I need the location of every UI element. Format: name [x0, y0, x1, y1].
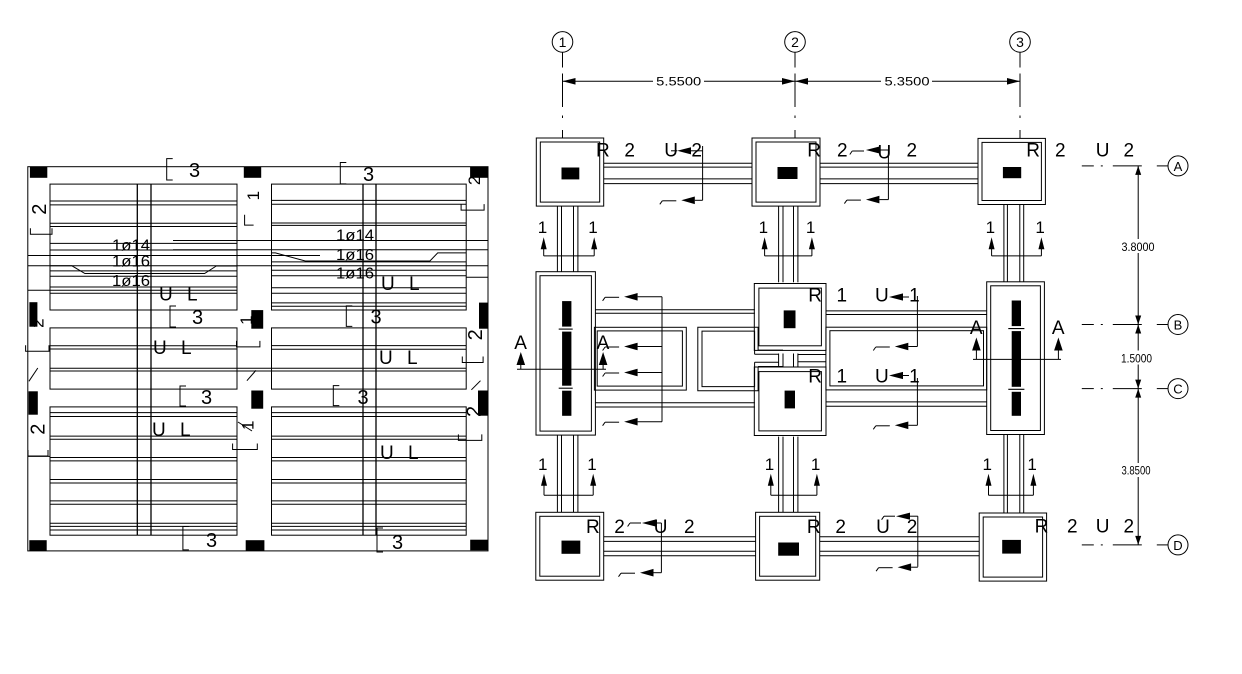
beam C right lines: [826, 401, 987, 403]
column D2: [778, 543, 799, 556]
column square top-middle: [244, 167, 261, 178]
svg-text:1: 1: [1027, 455, 1036, 474]
section mark 3 mid2 left: [180, 386, 186, 406]
dim text 5.3500: [881, 74, 932, 88]
svg-text:2: 2: [791, 34, 799, 50]
svg-text:R: R: [808, 367, 822, 388]
room left 2 notch to beam: [758, 349, 783, 351]
grid line D dash-dot: [1082, 544, 1094, 546]
long rebar line row3 left border: [28, 455, 50, 457]
dim extension ticks: [562, 74, 564, 108]
svg-text:1: 1: [837, 286, 848, 307]
room left 2 outer: [698, 327, 758, 391]
edge bracket middle top: [245, 215, 254, 225]
svg-text:1ø14: 1ø14: [112, 238, 150, 255]
svg-text:1ø16: 1ø16: [112, 254, 150, 271]
svg-text:1: 1: [909, 286, 920, 307]
long rebar lines row2: [50, 367, 466, 369]
dim arrows at C: [1135, 380, 1141, 389]
dim text 5.5500: [653, 74, 704, 88]
edge bracket left low: [28, 450, 48, 456]
svg-text:3: 3: [392, 532, 403, 554]
dim text 3.8000: [1119, 239, 1157, 253]
svg-text:B: B: [1174, 318, 1183, 333]
leader U2 A1: [677, 147, 691, 154]
footing D1: [536, 512, 604, 580]
svg-text:L: L: [409, 274, 420, 295]
svg-text:5.5500: 5.5500: [656, 75, 701, 89]
long rebar lines crossing supports row1: [173, 240, 488, 242]
svg-text:A: A: [1174, 159, 1183, 174]
svg-text:1: 1: [237, 315, 256, 324]
svg-text:U: U: [379, 348, 393, 369]
rebar lines row1 left panel: [50, 200, 237, 202]
svg-text:2: 2: [29, 204, 51, 215]
beam B3-D3: [1003, 435, 1005, 514]
svg-text:A: A: [970, 318, 983, 339]
svg-text:L: L: [180, 420, 191, 441]
beam B2-C2: [778, 354, 780, 367]
svg-text:2: 2: [28, 318, 47, 327]
svg-text:1: 1: [538, 455, 547, 474]
beam B2-B3 top lines: [826, 310, 987, 312]
svg-text:3.8000: 3.8000: [1122, 240, 1155, 254]
leader 1 below beam D1-D2: [621, 572, 635, 574]
svg-text:1.5000: 1.5000: [1121, 351, 1152, 365]
section mark 3 top left: [167, 159, 173, 180]
svg-text:R: R: [807, 141, 821, 162]
grid line C dash-dot: [1082, 388, 1094, 390]
svg-text:A: A: [1052, 318, 1065, 339]
grid bubble C: [1168, 379, 1188, 399]
column A1: [562, 168, 580, 180]
svg-text:1: 1: [1035, 218, 1044, 237]
svg-text:U: U: [1096, 141, 1110, 162]
edge bracket right top: [461, 204, 484, 210]
wall bar left upper: [29, 302, 37, 327]
svg-text:1: 1: [559, 34, 567, 50]
svg-text:U: U: [152, 420, 166, 441]
edge bracket right low: [458, 434, 481, 440]
leader 1 below B2: [876, 346, 890, 348]
svg-text:2: 2: [907, 517, 918, 538]
svg-text:1: 1: [983, 455, 992, 474]
svg-text:3: 3: [371, 307, 382, 329]
beam strip verticals left column: [136, 184, 138, 535]
beam C2-D2: [778, 437, 780, 513]
beam A1-A2: [604, 162, 752, 164]
svg-text:U: U: [380, 443, 394, 464]
footing C2: [754, 367, 826, 436]
svg-text:1ø16: 1ø16: [112, 273, 150, 290]
wall bar right lower: [478, 391, 488, 416]
footing D2: [756, 512, 820, 580]
grid stem 1: [562, 52, 564, 67]
column C2: [785, 391, 795, 409]
grid line B dash-dot: [1082, 324, 1094, 326]
grid line A dash-dot: [1082, 165, 1094, 167]
svg-text:R: R: [586, 517, 600, 538]
svg-text:L: L: [181, 338, 192, 359]
footing D3: [979, 513, 1046, 581]
section mark 3 mid2 right: [333, 386, 339, 406]
footing B2: [754, 284, 826, 351]
slab panel row2 right: [272, 328, 467, 389]
grid bubble 3: [1010, 32, 1031, 53]
grid bubble A: [1168, 156, 1188, 176]
wall column B3 bar: [1012, 301, 1021, 416]
svg-text:2: 2: [837, 141, 848, 162]
svg-text:U: U: [159, 284, 173, 305]
dim centerline dots: [562, 116, 564, 119]
svg-text:2: 2: [28, 424, 50, 435]
footing A2: [752, 138, 820, 206]
dim arrow at D: [1135, 536, 1141, 545]
beam A1-B1: [556, 206, 558, 272]
leader chain left rooms: [661, 297, 663, 422]
edge slash left: [29, 368, 38, 381]
beam A2-A3: [820, 162, 978, 164]
svg-text:3: 3: [189, 160, 200, 182]
svg-text:R: R: [1035, 516, 1049, 537]
rebar lines row2 right panel: [272, 345, 467, 347]
dim arrows at B: [1135, 316, 1141, 325]
beam strip verticals right column: [362, 184, 364, 535]
svg-text:L: L: [407, 348, 418, 369]
room left 1: [594, 327, 686, 390]
cranked rebar row1 left panel: [50, 266, 237, 274]
footing B3 (tall): [987, 282, 1045, 435]
column square bottom-middle: [246, 540, 265, 551]
room right: [826, 327, 987, 390]
rebar lines row2 left panel: [50, 345, 237, 347]
leader 1 below C2: [876, 425, 890, 427]
notch right of column gap: [798, 354, 826, 356]
column A2: [778, 167, 798, 179]
svg-text:3: 3: [201, 387, 212, 409]
grid bubble B: [1168, 315, 1188, 335]
edge bracket right mid: [462, 357, 483, 363]
leader 1 below beam A1-A2: [662, 200, 676, 202]
edge bracket middle low: [233, 444, 258, 450]
svg-text:1ø16: 1ø16: [336, 265, 374, 282]
svg-text:U: U: [876, 517, 890, 538]
svg-text:2: 2: [1124, 141, 1135, 162]
svg-text:R: R: [1026, 141, 1040, 162]
vertical dimension line right: [1137, 166, 1139, 545]
column D1: [562, 541, 581, 554]
rebar lines row3 left panel: [50, 412, 237, 414]
svg-text:1: 1: [806, 218, 815, 237]
svg-text:1: 1: [765, 455, 774, 474]
svg-text:3: 3: [1016, 34, 1024, 50]
slab panel row3 left: [50, 407, 237, 535]
slab panel row1 left: [50, 184, 237, 310]
slab panel row1 right: [272, 184, 467, 310]
section mark 3 mid1 left: [170, 306, 176, 327]
svg-text:3: 3: [206, 530, 217, 552]
section mark 3 bottom right: [377, 528, 383, 552]
grid stem 3: [1019, 52, 1021, 67]
grid stem 2: [794, 52, 796, 67]
svg-text:1ø16: 1ø16: [336, 247, 374, 264]
svg-text:C: C: [1173, 382, 1182, 397]
section mark 3 mid1 right: [346, 306, 352, 327]
grid bubble D: [1168, 535, 1188, 555]
leader at D1 label: [630, 522, 641, 524]
svg-text:2: 2: [1055, 141, 1066, 162]
svg-text:1: 1: [837, 367, 848, 388]
svg-text:1: 1: [986, 218, 995, 237]
svg-text:2: 2: [1067, 516, 1078, 537]
slab panel row3 right: [272, 407, 467, 535]
footing A1: [536, 138, 603, 206]
beam C left lines: [595, 402, 755, 404]
column square top-right: [470, 167, 488, 178]
svg-text:3: 3: [358, 387, 369, 409]
column square top-left: [30, 167, 47, 178]
svg-text:D: D: [1173, 538, 1182, 553]
svg-text:1: 1: [587, 455, 596, 474]
dim arrow at A: [1135, 166, 1141, 175]
svg-text:2: 2: [464, 406, 486, 417]
wall bar right upper: [479, 303, 488, 329]
grid bubble 2: [785, 32, 806, 53]
column square bottom-right: [470, 540, 488, 551]
beam A3-B3: [1003, 205, 1005, 282]
dim text 3.8500: [1119, 463, 1154, 477]
svg-text:2: 2: [465, 329, 487, 340]
leader 1 below beam D2-D3: [879, 567, 893, 569]
slab plan outer border: [28, 167, 488, 551]
svg-text:2: 2: [465, 176, 484, 185]
svg-text:A: A: [597, 333, 610, 354]
svg-text:1: 1: [909, 367, 920, 388]
edge bracket left top: [30, 228, 52, 234]
svg-text:R: R: [596, 141, 610, 162]
svg-text:1ø14: 1ø14: [336, 228, 374, 245]
column A3: [1003, 167, 1021, 178]
svg-text:U: U: [875, 286, 889, 307]
footing A3: [978, 138, 1045, 204]
dim arrows top: [563, 78, 576, 85]
svg-text:R: R: [808, 286, 822, 307]
section mark 3 top right: [340, 163, 346, 184]
footing B1 (tall): [536, 272, 595, 435]
edge slash right: [471, 381, 480, 390]
section mark 3 bottom left: [183, 527, 189, 550]
svg-text:U: U: [153, 338, 167, 359]
room left 2 inner: [702, 331, 755, 387]
svg-text:2: 2: [614, 517, 625, 538]
edge slash middle: [247, 370, 256, 380]
edge bracket left mid: [26, 345, 49, 351]
edge bracket middle mid: [237, 341, 260, 347]
svg-text:1: 1: [811, 455, 820, 474]
beam D1-D2: [604, 536, 756, 538]
svg-text:5.3500: 5.3500: [885, 75, 930, 89]
beam B1-B2 top lines: [595, 309, 755, 311]
svg-text:3: 3: [363, 164, 374, 186]
svg-text:1: 1: [759, 218, 768, 237]
wall bar left lower: [29, 391, 38, 414]
svg-text:2: 2: [835, 517, 846, 538]
svg-text:L: L: [408, 443, 419, 464]
cranked rebar row1 right panel: [272, 253, 467, 261]
column D3: [1002, 540, 1021, 554]
svg-text:2: 2: [907, 141, 918, 162]
svg-text:1: 1: [588, 218, 597, 237]
svg-text:2: 2: [684, 517, 695, 538]
leader at A2 label: [852, 150, 864, 152]
leader at D2 label: [884, 515, 895, 517]
beam D2-D3: [820, 536, 980, 538]
column square bottom-left: [29, 540, 46, 551]
grid bubble 1: [552, 32, 573, 53]
svg-text:3: 3: [192, 307, 203, 329]
svg-text:1: 1: [538, 218, 547, 237]
svg-text:2: 2: [624, 141, 635, 162]
svg-text:A: A: [514, 333, 527, 354]
wall column B1 bar: [562, 301, 571, 416]
svg-text:U: U: [381, 274, 395, 295]
wall bar middle upper: [251, 310, 263, 329]
dimension line top: [563, 80, 1021, 82]
slab panel row2 left: [50, 328, 237, 389]
svg-text:3.8500: 3.8500: [1122, 463, 1151, 477]
beam B1-D1: [556, 435, 558, 512]
svg-text:1: 1: [244, 191, 263, 200]
svg-text:U: U: [1096, 516, 1110, 537]
rebar lines row3 right panel: [272, 412, 467, 414]
svg-text:2: 2: [1124, 516, 1135, 537]
dim text 1.5000: [1118, 351, 1155, 365]
column B2: [784, 310, 796, 328]
rebar lines row1 right panel: [272, 199, 467, 201]
leader 1 below beam A2-A3: [847, 199, 861, 201]
wall bar middle lower: [251, 391, 263, 409]
svg-text:U: U: [875, 367, 889, 388]
svg-text:L: L: [187, 284, 198, 305]
beam A2-B2: [778, 206, 780, 282]
svg-text:R: R: [807, 517, 821, 538]
